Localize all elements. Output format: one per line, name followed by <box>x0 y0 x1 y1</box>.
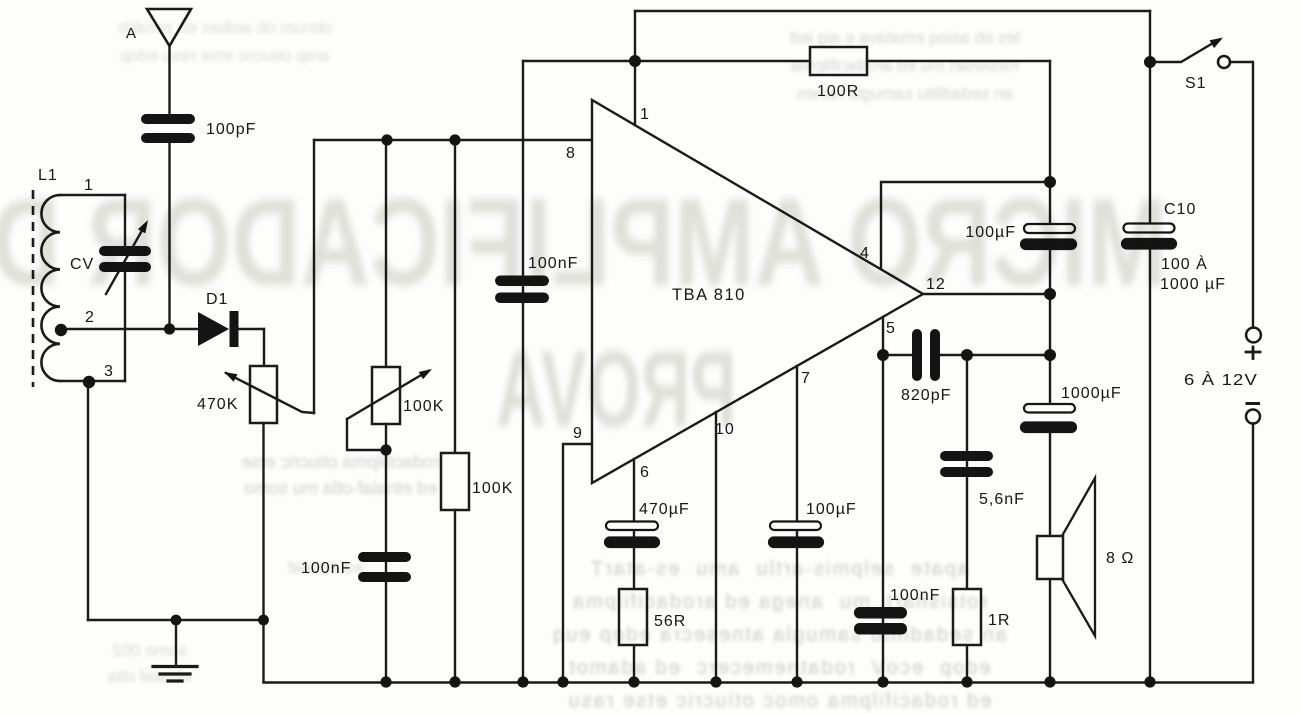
svg-text:A: A <box>126 25 137 42</box>
svg-text:5: 5 <box>886 320 896 337</box>
svg-text:100nF: 100nF <box>528 255 578 272</box>
svg-text:100µF: 100µF <box>965 224 1016 241</box>
svg-text:820pF: 820pF <box>901 387 951 404</box>
svg-text:470µF: 470µF <box>639 501 690 518</box>
svg-text:9: 9 <box>573 425 583 442</box>
svg-text:5,6nF: 5,6nF <box>979 491 1025 508</box>
svg-text:C10: C10 <box>1164 201 1196 218</box>
svg-text:CV: CV <box>70 256 94 273</box>
svg-text:100pF: 100pF <box>206 121 256 138</box>
svg-text:8: 8 <box>566 145 576 162</box>
svg-text:8 Ω: 8 Ω <box>1106 550 1134 567</box>
svg-text:100R: 100R <box>817 83 859 100</box>
svg-text:4: 4 <box>860 245 870 262</box>
svg-text:1000µF: 1000µF <box>1061 385 1122 402</box>
svg-text:100µF: 100µF <box>806 501 857 518</box>
svg-text:1000 µF: 1000 µF <box>1160 276 1226 293</box>
svg-text:100K: 100K <box>472 480 513 497</box>
svg-text:6: 6 <box>640 464 650 481</box>
svg-text:100nF: 100nF <box>301 560 351 577</box>
svg-text:2: 2 <box>85 309 95 326</box>
svg-text:12: 12 <box>926 276 946 293</box>
svg-text:3: 3 <box>104 363 114 380</box>
svg-text:L1: L1 <box>38 167 58 184</box>
svg-text:470K: 470K <box>197 396 238 413</box>
svg-text:100K: 100K <box>403 398 444 415</box>
svg-text:D1: D1 <box>206 291 228 308</box>
svg-text:7: 7 <box>801 370 811 387</box>
svg-text:1: 1 <box>84 177 94 194</box>
svg-text:1R: 1R <box>988 612 1010 629</box>
svg-text:56R: 56R <box>654 613 686 630</box>
svg-text:1: 1 <box>640 106 650 123</box>
svg-text:6 À 12V: 6 À 12V <box>1184 370 1258 389</box>
svg-text:S1: S1 <box>1185 75 1207 92</box>
svg-text:100nF: 100nF <box>890 587 940 604</box>
svg-text:10: 10 <box>715 421 735 438</box>
svg-text:TBA 810: TBA 810 <box>672 286 746 304</box>
svg-text:100 À: 100 À <box>1161 254 1208 273</box>
